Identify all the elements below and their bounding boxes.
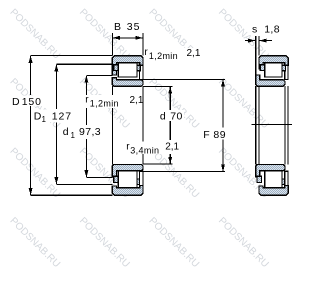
svg-text:89: 89 <box>213 129 226 141</box>
outer ring upper <box>112 56 143 75</box>
d arrow up <box>168 87 172 94</box>
s arrow left <box>248 39 255 43</box>
d1 arrow up <box>84 75 88 82</box>
D arrow down <box>29 188 33 195</box>
dimension d1 97,3 <box>86 74 112 76</box>
cage upper left <box>114 65 119 71</box>
B arrow left <box>113 36 120 40</box>
cage upper right <box>282 65 286 71</box>
svg-text:1,2min: 1,2min <box>90 99 119 109</box>
D arrow up <box>29 56 33 63</box>
dimension d 70 (bore) <box>143 86 172 88</box>
label d 70 <box>159 110 184 121</box>
label r3,4min 2,1 (inner ring chamfer) <box>126 141 179 154</box>
cage upper right <box>137 65 141 71</box>
d1 arrow down <box>84 170 88 177</box>
pocket lower right <box>140 171 143 185</box>
svg-text:s: s <box>252 23 257 35</box>
label D1 127 <box>33 110 71 123</box>
label F 89 <box>202 128 225 139</box>
right face silhouette line <box>142 86 144 164</box>
D1 arrow up <box>54 64 58 71</box>
B arrow right <box>136 36 143 40</box>
label D 150 <box>11 95 44 105</box>
svg-text:d: d <box>160 110 166 122</box>
svg-text:B: B <box>114 21 121 33</box>
dimension D1 127 <box>56 63 112 65</box>
F arrow down <box>221 164 225 171</box>
cage lower right <box>137 179 141 185</box>
s arrow right <box>259 39 266 43</box>
svg-text:2,1: 2,1 <box>165 142 179 153</box>
label r1,2min 2,1 (mid left, inner ring chamfer) <box>85 95 142 108</box>
inner ring lower <box>256 164 285 177</box>
inner ring upper <box>112 78 143 86</box>
dimension s 1,8 <box>255 36 257 74</box>
pocket lower right <box>285 171 288 185</box>
svg-text:2,1: 2,1 <box>187 48 201 59</box>
roller lower <box>118 171 137 188</box>
cage lower left <box>257 176 262 182</box>
outer ring lower <box>112 185 143 195</box>
pocket upper right <box>140 65 143 79</box>
svg-text:d: d <box>63 126 69 138</box>
svg-text:127: 127 <box>52 111 72 123</box>
right-fig bore gap face lines <box>255 86 257 164</box>
D1 arrow down <box>54 177 58 184</box>
dimension B 35 <box>111 33 113 56</box>
svg-text:2,1: 2,1 <box>130 95 144 106</box>
dimension F 89 (raceway) <box>143 78 225 80</box>
left face silhouette line <box>111 86 113 164</box>
svg-text:3,4min: 3,4min <box>130 145 159 155</box>
pocket upper right <box>285 65 288 79</box>
svg-text:1: 1 <box>71 131 76 140</box>
F arrow up <box>221 79 225 86</box>
svg-text:1,8: 1,8 <box>264 23 280 35</box>
svg-text:97,3: 97,3 <box>79 126 101 138</box>
svg-text:1: 1 <box>42 115 47 124</box>
label d1 97,3 <box>62 126 103 139</box>
d arrow down <box>168 157 172 164</box>
label r1,2min 2,1 (top right, outer ring chamfer) <box>144 48 199 60</box>
svg-text:70: 70 <box>170 110 183 122</box>
watermark grid PODSNAB.RU <box>7 7 270 270</box>
outer ring lower <box>259 185 288 195</box>
outer ring upper <box>259 56 288 69</box>
svg-text:150: 150 <box>22 96 42 108</box>
svg-text:F: F <box>203 129 209 141</box>
svg-text:35: 35 <box>127 21 141 33</box>
cage lower left <box>114 176 119 182</box>
roller upper <box>118 63 137 77</box>
cage upper left <box>260 65 265 71</box>
svg-text:1,2min: 1,2min <box>149 51 178 61</box>
dimension D 150 <box>31 55 113 57</box>
roller upper <box>265 63 282 77</box>
cage lower right <box>282 179 286 185</box>
inner ring lower <box>112 164 143 177</box>
roller lower <box>265 171 282 188</box>
inner ring upper <box>256 75 285 86</box>
centerline of right figure <box>251 123 292 125</box>
svg-text:D: D <box>12 96 20 108</box>
